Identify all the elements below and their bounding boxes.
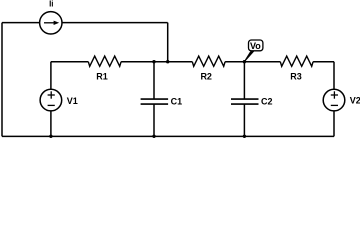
wire V1 top lead [50, 62, 52, 90]
resistor R2 [192, 56, 225, 66]
wire V1 bottom lead [50, 111, 52, 137]
node dot top-wire junction [166, 60, 169, 63]
svg-text:C2: C2 [261, 97, 273, 107]
wire left vertical [1, 23, 3, 137]
wire vertical from top wire down to rail [167, 23, 169, 62]
voltage source V2 [323, 89, 345, 111]
svg-text:R3: R3 [290, 72, 302, 82]
node dot C1 bottom [152, 135, 155, 138]
wire C1 top lead [153, 62, 155, 99]
svg-text:V1: V1 [67, 96, 78, 106]
node Vo callout box [249, 40, 263, 51]
wire R2 to R3 [225, 61, 280, 63]
svg-text:R1: R1 [96, 72, 108, 82]
node dot V1 bottom [49, 135, 52, 138]
wire rail V1 to R1 [51, 61, 88, 63]
node Vo callout pointer [243, 51, 254, 62]
capacitor C2 [231, 99, 259, 104]
wire top-left horizontal [2, 22, 39, 24]
wire bottom rail [2, 135, 334, 137]
wire C2 bottom lead [243, 104, 245, 136]
svg-text:V2: V2 [350, 95, 360, 105]
svg-text:Ii: Ii [49, 0, 53, 9]
svg-text:R2: R2 [200, 72, 212, 82]
node dot C2 bottom [243, 135, 246, 138]
resistor R1 [88, 56, 121, 66]
wire V2 bottom lead [333, 111, 335, 137]
wire top horizontal to corner [62, 22, 167, 24]
wire C1 bottom lead [153, 104, 155, 136]
svg-text:C1: C1 [171, 97, 183, 107]
resistor R3 [280, 56, 313, 66]
node dot Vo [243, 60, 246, 63]
svg-text:Vo: Vo [250, 41, 261, 51]
node dot C1 top [152, 60, 155, 63]
voltage source V1 [40, 89, 62, 111]
wire R3 to V2 corner [313, 61, 334, 63]
wire V2 top lead [333, 62, 335, 90]
wire R1 to R2 [121, 61, 192, 63]
capacitor C1 [141, 99, 169, 104]
wire C2 top lead [243, 62, 245, 99]
current source Ii [40, 12, 62, 34]
